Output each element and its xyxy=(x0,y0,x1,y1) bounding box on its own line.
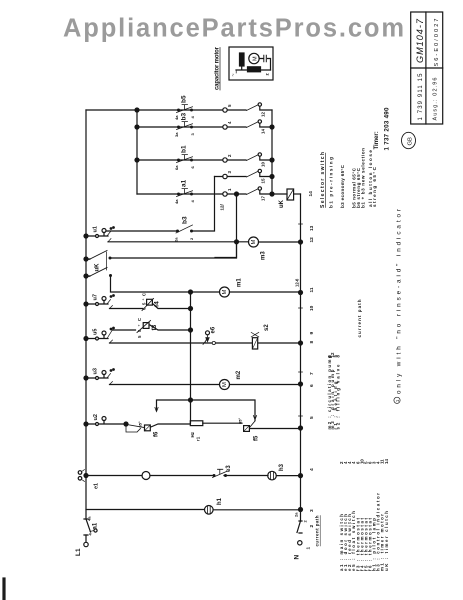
wire to uK coil xyxy=(272,193,287,195)
capacitor motor box xyxy=(229,47,273,80)
wire vertical tie xyxy=(190,292,192,423)
timer contact 14 xyxy=(247,122,259,128)
svg-text:s2: s2 xyxy=(264,324,270,331)
terminal L1 xyxy=(84,542,88,546)
node selector feed corner xyxy=(135,108,139,112)
node m2 to N xyxy=(299,382,303,386)
underline capacitor motor xyxy=(219,48,221,91)
node m3 to N xyxy=(299,240,303,244)
svg-text:m1: m1 xyxy=(237,278,243,287)
svg-text:10: 10 xyxy=(309,305,315,311)
motor m1 timer motor xyxy=(220,287,230,297)
svg-text:L1: L1 xyxy=(75,548,82,556)
node on selector feed (b1 row) xyxy=(135,158,139,162)
scan artifact left edge xyxy=(2,579,5,600)
wire current path 3 (h1 row) xyxy=(86,509,301,511)
wire selector b3 row xyxy=(106,177,215,232)
svg-text:9: 9 xyxy=(309,332,315,335)
svg-text:12/: 12/ xyxy=(220,203,225,210)
svg-text:Hz: Hz xyxy=(190,431,195,437)
wire N rail xyxy=(300,194,302,521)
node f3 to tie xyxy=(189,328,193,332)
wire current path 4 (e3 h3 row) xyxy=(86,475,301,477)
underline selector switch xyxy=(324,153,326,208)
svg-text:f4: f4 xyxy=(154,301,161,307)
thermostat f4 xyxy=(142,299,154,311)
svg-text:2a: 2a xyxy=(174,237,179,242)
node path12 junction xyxy=(235,240,239,244)
svg-text:m2: m2 xyxy=(236,370,242,379)
svg-text:17: 17 xyxy=(261,195,266,201)
connector u1 xyxy=(96,235,99,238)
svg-text:14: 14 xyxy=(261,128,266,134)
thermostat f6 xyxy=(127,425,144,428)
svg-text:e1: e1 xyxy=(94,483,100,489)
node a1-row branch xyxy=(235,192,239,196)
wire current path 5 (f6 r1 f5 row) xyxy=(151,423,301,428)
timer clutch switch uK xyxy=(84,257,88,261)
wire contact-15 row xyxy=(215,173,273,177)
node h1 to N xyxy=(299,508,303,512)
svg-text:current path: current path xyxy=(315,515,320,546)
svg-text:M: M xyxy=(252,56,258,61)
node contact17 to uK xyxy=(270,192,274,196)
svg-text:12: 12 xyxy=(309,237,315,243)
svg-text:u3: u3 xyxy=(93,368,99,374)
node vertical tie top xyxy=(189,290,193,294)
switch e6 xyxy=(206,331,210,335)
svg-text:r1: r1 xyxy=(196,436,201,441)
svg-text:b1 pre-rinsing: b1 pre-rinsing xyxy=(329,157,334,208)
wire uK throw to path 12 xyxy=(110,242,237,258)
wire uK coil to N rail xyxy=(294,193,301,195)
node u2 branch xyxy=(124,422,128,426)
svg-text:b3: b3 xyxy=(181,113,188,121)
underline current path 1 xyxy=(319,516,321,547)
svg-text:GB: GB xyxy=(408,137,414,146)
connector u7 xyxy=(96,303,99,306)
svg-text:5: 5 xyxy=(309,416,315,419)
wire L1 rail xyxy=(85,110,87,542)
connector u3 xyxy=(96,377,99,380)
wire current path 14 (a1 program row) xyxy=(137,191,272,195)
pushbutton b1 xyxy=(177,155,193,163)
svg-text:uK: uK xyxy=(279,199,285,208)
node 10-row xyxy=(270,158,274,162)
svg-text:1: 1 xyxy=(306,547,312,550)
thermostat f3 xyxy=(137,321,151,333)
svg-text:f5: f5 xyxy=(254,435,260,441)
svg-text:13: 13 xyxy=(309,225,315,231)
svg-text:3a: 3a xyxy=(174,132,179,137)
svg-text:b3: b3 xyxy=(182,216,189,224)
svg-text:M: M xyxy=(222,290,228,295)
svg-text:M: M xyxy=(251,240,257,245)
svg-text:1 737 203 490: 1 737 203 490 xyxy=(384,107,391,151)
connector u5 xyxy=(96,337,99,340)
wire current path 10 (f4 row) xyxy=(110,304,191,309)
svg-text:1 739 911 15: 1 739 911 15 xyxy=(418,73,424,121)
timer contact 17 xyxy=(247,189,259,195)
node link to tie xyxy=(189,398,193,402)
svg-text:e3: e3 xyxy=(226,465,232,472)
reed switch circle xyxy=(142,472,150,480)
node h3 to N xyxy=(299,474,303,478)
svg-text:streng 65°C: streng 65°C xyxy=(372,166,377,207)
switch e3 xyxy=(213,469,228,477)
svg-text:uK : timer clutch: uK : timer clutch xyxy=(384,511,389,571)
resistor r1 heating xyxy=(190,421,203,426)
svg-text:1: 1 xyxy=(395,399,401,402)
svg-text:u5: u5 xyxy=(93,329,99,335)
GB oval xyxy=(402,132,416,148)
pin uK throw xyxy=(109,257,111,259)
node m1 to N xyxy=(299,291,303,295)
switch a1 main switch N pole xyxy=(297,521,302,533)
svg-text:a1: a1 xyxy=(181,179,188,187)
svg-text:AppliancePartsPros.com: AppliancePartsPros.com xyxy=(63,15,404,43)
pilot lamp h1 xyxy=(205,506,214,515)
pushbutton b5 xyxy=(177,105,193,113)
wire u2 stub xyxy=(126,424,141,432)
svg-text:u7: u7 xyxy=(93,294,99,300)
svg-text:4a: 4a xyxy=(174,199,179,204)
pushbutton a1 xyxy=(177,189,193,197)
tick marks on N rail xyxy=(299,224,303,416)
timer contact 10 xyxy=(247,155,259,161)
svg-text:12: 12 xyxy=(261,111,266,117)
connector pin 5 xyxy=(223,108,227,112)
timer contact 15 xyxy=(247,171,259,177)
svg-text:uK: uK xyxy=(95,263,101,272)
timer contact 12 xyxy=(247,105,259,111)
title block xyxy=(411,12,443,124)
svg-text:4a: 4a xyxy=(174,115,179,120)
connector u2 xyxy=(96,423,99,426)
motor m3 drain pump xyxy=(249,237,259,247)
svg-text:e6: e6 xyxy=(211,326,217,333)
wire current path 11 (uK to m1) xyxy=(111,276,301,292)
wire f5 link row xyxy=(157,400,256,421)
node 15-row xyxy=(270,175,274,179)
svg-text:f6: f6 xyxy=(154,431,160,437)
svg-text:u2: u2 xyxy=(93,414,99,420)
svg-text:Ausg.: 02.96: Ausg.: 02.96 xyxy=(433,78,439,121)
svg-text:GM104-7: GM104-7 xyxy=(415,18,425,63)
svg-text:2a: 2a xyxy=(294,512,299,517)
svg-text:15: 15 xyxy=(261,178,266,184)
svg-text:85°: 85° xyxy=(138,421,143,427)
svg-text:h3: h3 xyxy=(279,463,285,471)
wire branch a1-row down to uK throw row xyxy=(215,194,237,258)
svg-text:7: 7 xyxy=(309,372,315,375)
svg-text:current path: current path xyxy=(357,299,362,337)
svg-text:h1: h1 xyxy=(217,497,223,505)
svg-text:8: 8 xyxy=(309,341,315,344)
svg-text:14: 14 xyxy=(384,459,389,464)
svg-text:Timer:: Timer: xyxy=(374,131,380,149)
svg-text:12-6: 12-6 xyxy=(295,278,300,287)
wire current path 17 (b5 row) xyxy=(137,107,272,111)
svg-text:u1: u1 xyxy=(93,226,99,232)
wire current path 9 (f3 row) xyxy=(113,325,191,330)
svg-text:b1 + b3 new selection: b1 + b3 new selection xyxy=(361,148,366,208)
svg-text:6: 6 xyxy=(309,384,315,387)
node on selector feed (b3 row) xyxy=(135,125,139,129)
wire current path 6 (m2 row) xyxy=(110,384,301,386)
svg-text:N: N xyxy=(294,555,301,560)
svg-text:6a: 6a xyxy=(174,165,179,170)
thermostat f5 xyxy=(250,421,255,427)
connector pin 2 xyxy=(223,158,227,162)
node s2 to N xyxy=(299,341,303,345)
svg-text:10: 10 xyxy=(261,161,266,167)
indicator h3 xyxy=(268,471,277,480)
svg-text:a1: a1 xyxy=(93,522,99,529)
wire current path 15 (b1 row) xyxy=(137,157,272,161)
pushbutton b3 xyxy=(177,122,193,130)
node f5 to N xyxy=(299,426,303,430)
svg-text:f3: f3 xyxy=(151,324,158,330)
svg-text:b1: b1 xyxy=(181,145,188,153)
connector pin 1 xyxy=(223,192,227,196)
svg-text:4a: 4a xyxy=(87,516,92,521)
pushbutton b3 selector xyxy=(176,225,193,233)
wire current path 12 m3 feed xyxy=(108,241,301,243)
node 14-row xyxy=(270,125,274,129)
node f4 to tie xyxy=(189,307,193,311)
terminal e1 xyxy=(78,471,82,475)
valve s2 xyxy=(252,338,257,349)
svg-text:11: 11 xyxy=(309,287,315,292)
svg-text:14: 14 xyxy=(308,191,314,197)
wire current path 8 (e6 s2 row) xyxy=(110,342,301,344)
wire bus of selector outputs xyxy=(271,110,273,194)
svg-text:~: ~ xyxy=(231,74,237,77)
svg-text:4: 4 xyxy=(309,468,315,471)
note circled 1 xyxy=(394,397,400,403)
connector pin 4 xyxy=(223,125,227,129)
svg-text:3: 3 xyxy=(309,509,315,512)
connector pin 3 xyxy=(223,174,227,178)
wire current path 16 (b3 row) xyxy=(137,124,272,128)
svg-text:b5: b5 xyxy=(181,95,188,103)
terminal N xyxy=(298,541,302,545)
relay coil uK xyxy=(287,189,294,200)
motor m2 circulation pump xyxy=(220,380,230,390)
switch a1 main switch L1 pole xyxy=(84,519,91,535)
wire top link to selector xyxy=(86,110,137,194)
svg-text:M: M xyxy=(222,382,228,387)
arrowhead f5 link xyxy=(253,416,256,420)
svg-text:85°: 85° xyxy=(238,418,243,424)
svg-text:b3 economy 65°C: b3 economy 65°C xyxy=(340,164,345,208)
svg-text:capacitor motor: capacitor motor xyxy=(215,46,221,90)
svg-text:m3: m3 xyxy=(261,251,267,260)
